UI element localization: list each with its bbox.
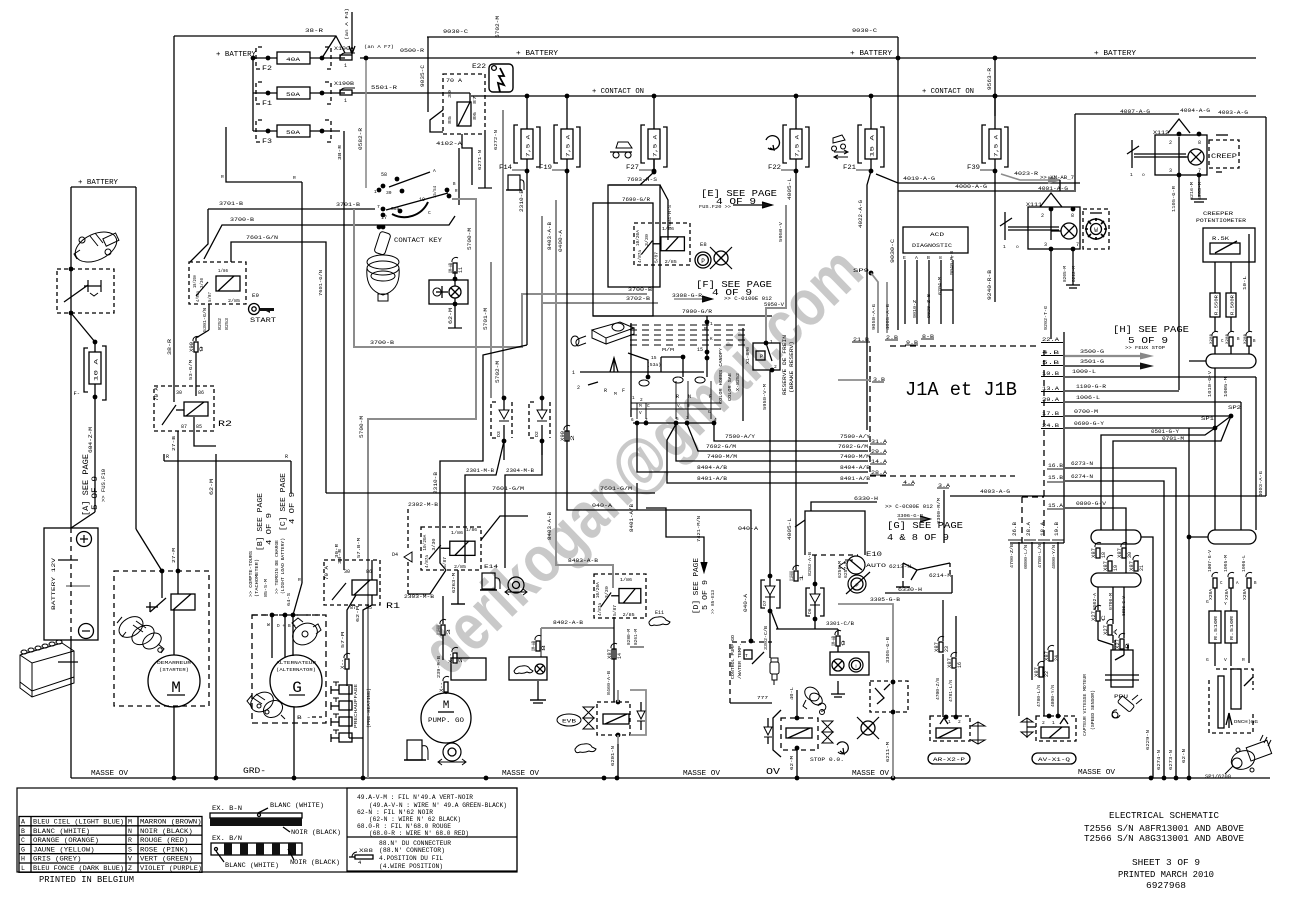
- svg-text:ROUGE (RED): ROUGE (RED): [140, 837, 188, 844]
- icon starter motor 3d: [115, 612, 164, 653]
- svg-text:R.510R: R.510R: [1214, 615, 1219, 640]
- box E10: [805, 511, 865, 555]
- svg-text:R: R: [285, 454, 288, 460]
- svg-text:R: R: [1242, 657, 1245, 663]
- connector XM-AB-8: [535, 635, 541, 640]
- svg-text:CONTACT KEY: CONTACT KEY: [394, 237, 442, 244]
- wire 4019-A-G: [876, 174, 1080, 183]
- svg-text:8280-M: 8280-M: [628, 628, 632, 645]
- svg-text:8205-M: 8205-M: [1064, 265, 1068, 282]
- motor box PPU: [1111, 650, 1133, 687]
- svg-text:6330-H: 6330-H: [898, 587, 922, 593]
- svg-text:5950-V-M: 5950-V-M: [762, 384, 768, 410]
- glow plug 3d icon: [571, 322, 634, 346]
- svg-text:M: M: [128, 819, 132, 826]
- wire (an A F4) entry: [351, 12, 353, 52]
- fuse 10A: [93, 340, 98, 345]
- svg-text:5 OF 9: 5 OF 9: [92, 476, 100, 510]
- svg-text:7601-G/N: 7601-G/N: [246, 235, 278, 241]
- svg-text:85: 85: [447, 116, 453, 124]
- svg-text:D3: D3: [496, 431, 502, 437]
- connector X87-19: [1107, 555, 1113, 560]
- svg-text:ORANGE (ORANGE): ORANGE (ORANGE): [33, 837, 99, 844]
- svg-text:14: 14: [617, 653, 623, 659]
- svg-text:9: 9: [841, 640, 847, 646]
- wires resistors to dnch: [1214, 643, 1216, 666]
- svg-text:9202-T-G: 9202-T-G: [1043, 306, 1049, 330]
- svg-text:FUS.F20 >>: FUS.F20 >>: [699, 204, 731, 210]
- svg-text:X27: X27: [1091, 611, 1097, 621]
- svg-text:8: 8: [541, 645, 547, 651]
- connector X90-2: [564, 425, 570, 430]
- svg-text:X27: X27: [1115, 639, 1121, 649]
- connector X---: [344, 653, 350, 658]
- potentiometer R.5K: [1203, 228, 1255, 262]
- svg-text:(88.N' CONNECTOR): (88.N' CONNECTOR): [379, 847, 445, 854]
- svg-text:MASSE OV: MASSE OV: [91, 770, 129, 778]
- svg-text:V: V: [128, 856, 132, 863]
- svg-text:S: S: [128, 846, 132, 853]
- wire 62-M long: [215, 461, 217, 778]
- svg-text:X190A: X190A: [334, 46, 354, 52]
- connector pins pot: [1212, 331, 1218, 336]
- svg-text:3701-B: 3701-B: [219, 201, 244, 207]
- svg-text:EVB: EVB: [562, 719, 576, 725]
- svg-text:9240-R-B: 9240-R-B: [987, 270, 993, 300]
- svg-text:D6: D6: [807, 608, 813, 614]
- svg-text:o: o: [1016, 245, 1019, 250]
- lamp X111: [1061, 223, 1077, 239]
- wire 3.B grey: [838, 379, 871, 381]
- svg-text:4800-Y/N: 4800-Y/N: [1051, 685, 1056, 707]
- svg-text:85-S-M: 85-S-M: [263, 579, 269, 597]
- svg-text:1: 1: [344, 63, 347, 69]
- svg-text:E22: E22: [472, 63, 487, 70]
- svg-text:X87: X87: [1117, 548, 1123, 558]
- svg-text:0600-G-Y: 0600-G-Y: [1074, 421, 1105, 427]
- svg-text:AUTO: AUTO: [866, 563, 886, 569]
- wire 0400-A bottom: [567, 493, 751, 641]
- svg-text:30: 30: [447, 90, 453, 98]
- svg-text:6273-N: 6273-N: [1071, 461, 1093, 467]
- svg-text:2/85: 2/85: [623, 612, 635, 618]
- svg-text:N: N: [128, 828, 132, 835]
- icon fan pump: [508, 577, 524, 593]
- svg-text:NOIR (BLACK): NOIR (BLACK): [140, 828, 193, 835]
- wire 27-B R2 down: [177, 431, 179, 571]
- svg-text:1010-G-V: 1010-G-V: [1207, 371, 1213, 397]
- connector X87-14: [611, 643, 617, 648]
- svg-text:(49.A-V-N : WIRE N' 49.A GREEN: (49.A-V-N : WIRE N' 49.A GREEN-BLACK): [369, 802, 507, 809]
- connector X27-C: [1095, 605, 1101, 610]
- svg-text:9: 9: [199, 346, 205, 352]
- svg-text:7601-G/M: 7601-G/M: [492, 486, 524, 492]
- svg-text:4005-L: 4005-L: [787, 518, 793, 540]
- svg-text:K: K: [710, 337, 713, 342]
- box oil lamp: [830, 652, 869, 675]
- svg-text:COLOR HOBBS CANOPY: COLOR HOBBS CANOPY: [719, 348, 724, 404]
- svg-text:28.A: 28.A: [1026, 522, 1032, 536]
- svg-text:64-S: 64-S: [286, 593, 292, 606]
- svg-text:604-Z-M: 604-Z-M: [88, 427, 94, 453]
- svg-text:239-M-B: 239-M-B: [436, 656, 442, 678]
- svg-text:9035-C: 9035-C: [420, 65, 426, 87]
- svg-text:3/30: 3/30: [200, 278, 205, 288]
- svg-text:4102-A: 4102-A: [436, 140, 463, 147]
- relay EVB: [557, 714, 581, 726]
- svg-text:7601-G/N: 7601-G/N: [318, 270, 324, 296]
- connector X1900-1: [793, 565, 799, 570]
- svg-text:T2566 S/N A8G313001 AND ABOVE: T2566 S/N A8G313001 AND ABOVE: [1084, 833, 1244, 844]
- svg-text:040-A: 040-A: [592, 503, 613, 509]
- svg-text:X87: X87: [934, 642, 940, 652]
- svg-text:MASSE OV: MASSE OV: [1078, 769, 1116, 777]
- svg-text:9030-C: 9030-C: [443, 28, 469, 35]
- relay R2: [154, 386, 214, 431]
- svg-text:0700-M: 0700-M: [1074, 409, 1098, 415]
- svg-text:BLANC (WHITE): BLANC (WHITE): [225, 862, 279, 869]
- svg-text:4/85a: 4/85a: [196, 291, 201, 302]
- svg-text:5301-G/N: 5301-G/N: [203, 307, 208, 332]
- svg-text:D7: D7: [762, 600, 768, 606]
- svg-text:4800-Y/N: 4800-Y/N: [1051, 545, 1057, 569]
- wire battery minus down: [70, 640, 72, 778]
- connector XM-AB-11: [452, 257, 458, 262]
- svg-text:R: R: [221, 174, 224, 180]
- svg-text:1: 1: [1130, 172, 1133, 178]
- connector X27-A: [1107, 619, 1113, 624]
- svg-text:PRECHAUFFAGE: PRECHAUFFAGE: [353, 684, 359, 728]
- svg-text:62-M: 62-M: [448, 308, 454, 324]
- svg-text:X87: X87: [1091, 548, 1097, 558]
- svg-text:C: C: [21, 837, 25, 844]
- svg-text:8460-A-B: 8460-A-B: [607, 671, 612, 695]
- wire 57-M to glow plugs: [347, 595, 356, 658]
- svg-text:F: F: [622, 388, 625, 394]
- svg-text:F21: F21: [843, 164, 856, 171]
- svg-text:X28A: X28A: [1244, 588, 1248, 600]
- svg-text:18.A: 18.A: [1040, 522, 1046, 536]
- lamp X112: [1188, 149, 1204, 165]
- svg-text:040-A: 040-A: [743, 594, 749, 612]
- wire 6274-N: [1065, 481, 1164, 778]
- svg-text:A: A: [21, 819, 25, 826]
- svg-text:X88: X88: [359, 848, 373, 854]
- wire 3500-G: [1065, 355, 1140, 357]
- wire 0800-G-V: [1065, 508, 1126, 573]
- svg-text:X-8252: X-8252: [736, 373, 741, 391]
- svg-text:R: R: [293, 175, 296, 181]
- svg-text:3702-B: 3702-B: [626, 296, 651, 302]
- connector X87-30: [1121, 542, 1127, 547]
- fuse F2 40A: [253, 57, 277, 59]
- icon oil pressure sensor 3d: [802, 684, 826, 714]
- switch battery cutoff: [57, 269, 114, 313]
- svg-text:5 OF 9: 5 OF 9: [702, 580, 710, 610]
- legend outer box: [17, 788, 517, 872]
- wire 9035-C vertical: [427, 37, 429, 112]
- svg-text:M/M: M/M: [662, 347, 674, 353]
- svg-text:J1A et J1B: J1A et J1B: [905, 379, 1017, 401]
- connector X190B: [340, 88, 355, 93]
- svg-text:A: A: [1113, 629, 1119, 635]
- resistor R.500R: [1226, 293, 1236, 317]
- gear icon X111: [1083, 209, 1109, 249]
- svg-text:SHEET 3 OF 9: SHEET 3 OF 9: [1132, 857, 1200, 868]
- svg-text:87: 87: [472, 96, 478, 104]
- switch brake reserve: [764, 341, 769, 346]
- svg-text:7: 7: [1076, 242, 1079, 248]
- svg-text:24: 24: [1054, 655, 1060, 661]
- svg-text:6257-M: 6257-M: [845, 560, 849, 578]
- diode EVB: [637, 711, 645, 721]
- svg-text:4005-L: 4005-L: [787, 178, 793, 200]
- wire 8460-A-B relay to EVB: [613, 617, 615, 702]
- svg-text:1: 1: [799, 575, 805, 581]
- svg-text:15: 15: [697, 347, 703, 353]
- svg-text:22: 22: [1044, 671, 1050, 677]
- svg-text:10/20A: 10/20A: [422, 534, 428, 550]
- svg-text:POTENTIOMETER: POTENTIOMETER: [1196, 218, 1246, 224]
- svg-text:SP1: SP1: [1201, 416, 1214, 422]
- svg-text:6263-M: 6263-M: [451, 573, 457, 593]
- wire F19 down 0400-A: [566, 171, 568, 493]
- svg-text:VIOLET (PURPLE): VIOLET (PURPLE): [140, 865, 202, 872]
- wire 1100-G-R: [1065, 390, 1179, 392]
- svg-text:X87: X87: [1103, 561, 1109, 571]
- wires 4007/4004/4003: [1075, 113, 1179, 115]
- svg-text:X27: X27: [1103, 625, 1109, 635]
- relay starter solenoid: [171, 594, 195, 610]
- svg-text:2310-B: 2310-B: [433, 472, 439, 494]
- svg-text:(LIGHT LOAD BATTERY): (LIGHT LOAD BATTERY): [281, 538, 286, 594]
- svg-text:7500-A/Y: 7500-A/Y: [725, 434, 756, 440]
- svg-text:4/87a: 4/87a: [597, 603, 603, 616]
- svg-text:1/86: 1/86: [620, 577, 632, 583]
- relay E22 70A: [443, 74, 485, 134]
- connector X87-24: [1048, 645, 1054, 650]
- svg-text:(ALTERNATOR): (ALTERNATOR): [276, 667, 316, 673]
- svg-text:4780-L/N: 4780-L/N: [1037, 544, 1043, 568]
- svg-text:(4.WIRE POSITION): (4.WIRE POSITION): [379, 863, 443, 870]
- svg-text:4023-R: 4023-R: [1014, 171, 1038, 177]
- svg-text:10/20A: 10/20A: [635, 230, 641, 246]
- svg-text:5701-M: 5701-M: [483, 308, 489, 330]
- gauge AUTO: [847, 556, 865, 574]
- svg-text:49.A-V-M : FIL N'49.A VERT-NOI: 49.A-V-M : FIL N'49.A VERT-NOIR: [357, 794, 473, 801]
- svg-text:M: M: [639, 404, 642, 409]
- svg-text:62-N : FIL N'62 NOIR: 62-N : FIL N'62 NOIR: [357, 809, 433, 816]
- svg-text:7601-G/M: 7601-G/M: [600, 486, 632, 492]
- svg-text:8403-A-B: 8403-A-B: [547, 222, 553, 250]
- wire 9563-R vertical: [994, 58, 996, 116]
- wire +BATTERY bus: [360, 57, 1256, 59]
- svg-text:2: 2: [570, 435, 576, 441]
- connector J1A dashed outline: [869, 346, 871, 476]
- svg-text:62-M: 62-M: [209, 479, 215, 495]
- box small EVB-in: [451, 658, 486, 680]
- svg-text:0500-R: 0500-R: [400, 48, 425, 54]
- diode D3: [502, 396, 507, 401]
- svg-text:1100-G-R: 1100-G-R: [1076, 384, 1107, 390]
- ground mid: [837, 681, 839, 694]
- svg-text:27-M: 27-M: [171, 548, 177, 563]
- svg-text:9030-C: 9030-C: [890, 239, 896, 263]
- svg-text:27-B: 27-B: [171, 436, 177, 451]
- svg-text:5501-R: 5501-R: [371, 84, 398, 91]
- svg-text:(an A F4): (an A F4): [344, 8, 350, 40]
- wiper motor pin stubs: [675, 381, 677, 419]
- svg-text:8402-A-B: 8402-A-B: [553, 620, 583, 626]
- svg-text:C: C: [1101, 615, 1107, 621]
- connector X---: [443, 676, 449, 681]
- connector X---2: [452, 647, 458, 652]
- svg-text:ALTERNATEUR: ALTERNATEUR: [276, 660, 316, 666]
- wire 0501-G-Y: [1101, 428, 1215, 530]
- resistor R.510R 1: [1209, 611, 1221, 643]
- svg-text:6256-M: 6256-M: [839, 560, 843, 578]
- svg-text:6205-M: 6205-M: [1198, 182, 1203, 200]
- svg-text:+ BATTERY: + BATTERY: [516, 50, 558, 58]
- svg-text:M: M: [614, 391, 617, 397]
- wire E9 down X90: [208, 304, 210, 330]
- wire 3702-B grey run: [542, 302, 658, 304]
- svg-text:C: C: [647, 404, 650, 409]
- svg-text:D +: D +: [277, 624, 285, 629]
- wire 30-R from F3: [343, 131, 345, 570]
- svg-text:6204-M: 6204-M: [937, 277, 943, 295]
- svg-text:X28B: X28B: [1210, 333, 1214, 344]
- icon alternator 3d bottom: [247, 688, 286, 721]
- svg-text:B -: B -: [297, 714, 311, 721]
- svg-text:70 A: 70 A: [324, 566, 330, 580]
- wire 6330-H bottom: [885, 592, 952, 594]
- wire 3700-B grey run: [354, 209, 647, 347]
- switch contact key contacts: [381, 184, 386, 189]
- svg-text:1: 1: [374, 189, 377, 195]
- wires below X112: [1177, 173, 1182, 178]
- svg-text:3301-C/B: 3301-C/B: [826, 621, 854, 627]
- svg-text:(62-N : WIRE N' 62 BLACK): (62-N : WIRE N' 62 BLACK): [369, 816, 461, 823]
- svg-text:F1: F1: [262, 100, 273, 107]
- svg-text:F27: F27: [626, 164, 639, 171]
- svg-text:4007-A-G: 4007-A-G: [1120, 109, 1150, 115]
- wire 7601-G/N: [231, 242, 326, 493]
- svg-text:1/86: 1/86: [218, 269, 228, 274]
- wire 1006-L: [1065, 401, 1241, 403]
- wire 5700-M grey: [368, 199, 476, 778]
- svg-text:86: 86: [472, 112, 478, 120]
- alternator terminals: [252, 614, 322, 616]
- svg-text:3: 3: [686, 416, 689, 421]
- relay: [421, 527, 481, 570]
- svg-text:8: 8: [1198, 140, 1201, 146]
- svg-text:(PRE-HEATING): (PRE-HEATING): [366, 688, 372, 728]
- svg-text:CREEPER: CREEPER: [1203, 211, 1233, 217]
- wire 1009-L: [1065, 376, 1256, 378]
- svg-text:19.B: 19.B: [1054, 522, 1060, 536]
- svg-text:9020-Z-B: 9020-Z-B: [926, 294, 932, 318]
- wire 8402-A-B grey: [541, 627, 614, 629]
- icon fuel pump bottom: [407, 740, 422, 760]
- svg-text:1: 1: [344, 98, 347, 104]
- relay: [594, 574, 646, 618]
- svg-text:62-N: 62-N: [1181, 749, 1187, 763]
- wire F27 down: [653, 160, 655, 172]
- svg-text:4000-A-G: 4000-A-G: [955, 184, 987, 190]
- svg-text:38-R: 38-R: [167, 339, 173, 355]
- svg-text:4019-A-G: 4019-A-G: [903, 176, 935, 182]
- dashed box water temp switch: [870, 681, 908, 712]
- svg-text:23: 23: [944, 646, 950, 652]
- svg-text:BLANC (WHITE): BLANC (WHITE): [33, 828, 90, 835]
- svg-text:XM-AB: XM-AB: [448, 263, 454, 273]
- svg-text:53-G/M: 53-G/M: [188, 360, 194, 380]
- svg-text:1: 1: [1003, 244, 1006, 250]
- svg-text:D4: D4: [392, 552, 398, 558]
- glow plugs prechauffage: [348, 686, 350, 738]
- wire 4000-A-G: [898, 190, 1076, 192]
- svg-text:4003-A-G: 4003-A-G: [1218, 110, 1248, 116]
- connector X27-B: [1119, 633, 1125, 638]
- wire 3302-C/B: [769, 611, 771, 658]
- wire 38-R vertical: [173, 36, 175, 393]
- svg-text:>> 85-E13: >> 85-E13: [711, 590, 716, 614]
- icon alternator 3d top: [289, 618, 322, 649]
- ground: [902, 581, 904, 587]
- diode D6: [814, 555, 816, 584]
- svg-text:6274-N: 6274-N: [1156, 750, 1162, 770]
- svg-text:G: G: [1206, 599, 1209, 605]
- wire to fuse 10A: [71, 313, 95, 342]
- svg-text:E8: E8: [700, 241, 707, 248]
- icon tip truck F21: [832, 135, 846, 151]
- svg-text:7,5 A: 7,5 A: [653, 134, 659, 157]
- label AR-X2-P: [928, 753, 970, 764]
- wire starter to ground bus: [173, 707, 175, 778]
- svg-text:[B] SEE PAGE: [B] SEE PAGE: [257, 493, 265, 551]
- svg-text:DIAGNOSTIC: DIAGNOSTIC: [912, 242, 953, 249]
- svg-text:R: R: [687, 404, 690, 409]
- svg-text:2/85: 2/85: [665, 259, 677, 265]
- svg-text:0800-G-V: 0800-G-V: [1076, 501, 1107, 507]
- svg-text:6927968: 6927968: [1146, 880, 1186, 891]
- wire R1 85 to ground: [363, 595, 372, 778]
- svg-text:R: R: [166, 454, 169, 460]
- svg-text:7500-A/Y: 7500-A/Y: [840, 434, 871, 440]
- wire 0582-R: [365, 58, 367, 188]
- svg-text:9050-A-G: 9050-A-G: [871, 304, 877, 330]
- svg-text:BLEU CIEL (LIGHT BLUE): BLEU CIEL (LIGHT BLUE): [33, 819, 124, 826]
- svg-text:7,5 A: 7,5 A: [526, 134, 532, 157]
- svg-text:+ BATTERY: + BATTERY: [1094, 50, 1136, 58]
- resistor R.550R: [1210, 293, 1220, 317]
- svg-text:(SPEED SENSOR): (SPEED SENSOR): [1090, 690, 1096, 730]
- svg-text:X87: X87: [1044, 651, 1050, 661]
- resistor R.510R 2: [1225, 611, 1237, 643]
- svg-text:[G] SEE PAGE: [G] SEE PAGE: [887, 521, 963, 531]
- svg-text:(53a): (53a): [647, 363, 661, 368]
- svg-text:7: 7: [377, 204, 380, 210]
- svg-text:>> FEUX STOP: >> FEUX STOP: [1125, 345, 1165, 351]
- svg-text:H: H: [21, 856, 25, 863]
- svg-text:+ BATTERY: + BATTERY: [850, 50, 892, 58]
- ground symbol left of pump: [537, 681, 539, 700]
- switch X112: [1131, 140, 1133, 168]
- svg-text:50A: 50A: [286, 91, 301, 98]
- svg-text:4700-Z/B: 4700-Z/B: [936, 678, 941, 700]
- svg-text:E11: E11: [655, 610, 664, 616]
